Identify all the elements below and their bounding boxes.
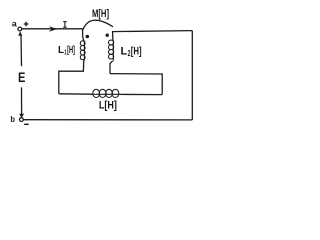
- label I: [63, 22, 66, 28]
- inductor L (horizontal coil): [93, 89, 119, 97]
- inductor L1 coil: [80, 41, 85, 61]
- svg-text:[H]: [H]: [67, 45, 75, 56]
- wire: inner bottom right: [119, 93, 163, 95]
- svg-text:E: E: [18, 69, 25, 85]
- voltage arrow E upper segment: [20, 35, 23, 67]
- mutual coupling arc M: [83, 20, 113, 30]
- polarity dot L2: [106, 34, 109, 37]
- voltage arrowhead up (at a): [18, 31, 22, 36]
- voltage arrowhead down (at b): [19, 114, 24, 118]
- svg-text:M[H]: M[H]: [92, 8, 109, 20]
- wire: outer bottom: [23, 119, 192, 121]
- wire: L1 top vertical: [83, 29, 84, 41]
- svg-text:L: L: [58, 45, 64, 56]
- wire: inner bottom left: [59, 93, 93, 95]
- svg-text:L: L: [121, 46, 128, 58]
- voltage arrow E lower segment: [21, 87, 23, 114]
- svg-text:[H]: [H]: [131, 46, 142, 58]
- plus sign: [24, 22, 29, 27]
- current arrowhead I: [49, 26, 58, 32]
- terminal a: [18, 27, 22, 31]
- wire: top left from a to L1: [22, 28, 83, 30]
- wire: L1 bottom to inner left: [59, 60, 84, 94]
- wire: right vertical: [191, 31, 193, 120]
- polarity dot L1: [86, 35, 90, 39]
- terminal b: [20, 118, 24, 122]
- svg-text:a: a: [12, 20, 18, 29]
- wire: L2 bottom: [110, 61, 113, 74]
- wire: inner right vertical and top: [110, 74, 162, 95]
- inductor L2 coil: [109, 40, 114, 61]
- svg-text:b: b: [10, 114, 15, 124]
- minus sign: [24, 123, 28, 125]
- wire: L2 top to top-right corner: [113, 31, 193, 41]
- svg-text:L[H]: L[H]: [99, 100, 117, 112]
